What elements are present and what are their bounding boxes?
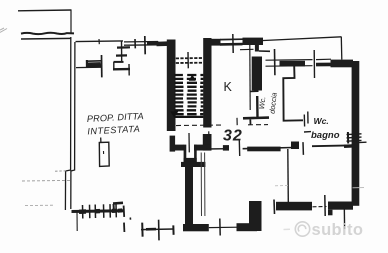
hinge tick right of corner	[273, 200, 276, 215]
top wall thick segment to stairwell	[157, 41, 171, 46]
svg-text:bagno: bagno	[311, 130, 340, 141]
svg-text:Wc.: Wc.	[314, 116, 329, 126]
top-right balcony outline vertical	[340, 37, 343, 60]
svg-text:K: K	[224, 80, 233, 94]
wall end cluster marks	[113, 203, 131, 232]
elevator right stub	[203, 134, 212, 151]
bottom-left window wall	[72, 204, 124, 231]
bottom door line	[209, 226, 239, 228]
elevator left bar	[174, 145, 184, 151]
pillar top tick	[100, 138, 102, 143]
balcony top-left upper edge line	[18, 9, 72, 12]
window right of jamb	[316, 59, 331, 64]
balcony top-left right vertical	[70, 10, 72, 33]
doccia wall foot tick	[250, 90, 259, 92]
bottom wall far right segment	[328, 202, 353, 210]
right exterior wall	[352, 61, 360, 206]
wc arrow tick	[307, 112, 309, 124]
doccia left wall thick	[252, 57, 262, 91]
landing center tick	[187, 52, 189, 68]
door tick on top wall	[98, 39, 100, 44]
stub below bottom wall	[328, 210, 333, 216]
doccia door stub	[249, 120, 251, 125]
thin drop below right wall	[343, 206, 345, 229]
pillar rectangle below INTESTATA	[99, 142, 109, 166]
bottom wall right segment	[276, 202, 312, 211]
dashed jog tick	[55, 170, 67, 172]
doccia bottom wall line	[243, 116, 269, 119]
stair treads	[174, 75, 203, 117]
dashed line kitchen boundary left	[168, 124, 224, 127]
dashed line kitchen boundary right	[248, 124, 268, 126]
elevator right bar	[194, 145, 212, 151]
stair down arrow	[170, 111, 178, 117]
svg-text:doccia: doccia	[268, 92, 279, 114]
right wall window hatches	[347, 132, 367, 144]
jamb line	[313, 50, 315, 78]
bottom wall left segment	[183, 224, 209, 231]
stairwell right wall	[203, 38, 211, 128]
bottom wall mid segment	[237, 223, 258, 231]
stair up arrow	[189, 74, 196, 81]
stairwell left wall	[167, 40, 176, 132]
stair landing window rows	[176, 58, 203, 63]
balcony lower edge line	[21, 37, 71, 40]
bagno bottom wall line	[312, 144, 355, 147]
pillar inner dot	[103, 151, 105, 154]
top-right balcony outline horizontal	[261, 37, 342, 41]
top wall right piece	[243, 38, 264, 45]
svg-text:PROP. DITTA: PROP. DITTA	[87, 111, 144, 124]
bagno bottom wall thick end	[344, 144, 355, 148]
elevator cup right wall	[194, 145, 197, 162]
kitchen window top line	[220, 38, 243, 40]
dark fill of window bar	[147, 41, 159, 44]
bedroom top wall thick bar	[247, 147, 280, 152]
faint mark at left edge	[0, 28, 7, 33]
elevator cup left wall	[184, 145, 187, 162]
terrace step wall cluster	[113, 41, 130, 76]
window symbol left (balcony door)	[76, 55, 102, 77]
middle wall glazing doccia	[266, 49, 313, 75]
watermark subito	[284, 221, 364, 239]
svg-text:Wc.: Wc.	[257, 96, 267, 110]
elevator left stub	[170, 136, 176, 152]
balcony wavy parapet line	[21, 33, 74, 34]
party wall stem	[185, 167, 193, 225]
stub notch tick	[208, 131, 210, 135]
corridor double line inner	[204, 153, 206, 217]
svg-text:INTESTATA: INTESTATA	[87, 124, 140, 137]
faint line above bottom wall left	[275, 184, 290, 186]
doccia thin vertical line	[249, 45, 251, 110]
top wall window (double glazing lines)	[124, 36, 159, 54]
elevator cup bottom	[184, 158, 197, 162]
faint dashed offset line lower	[25, 204, 53, 206]
faint dashed offset line upper	[22, 179, 70, 182]
lintel tick below cap	[240, 48, 254, 50]
kitchen window tick	[232, 34, 234, 53]
bedroom top wall thin line right	[243, 148, 293, 149]
door hinge line below 32	[238, 140, 240, 156]
step corner block	[249, 201, 262, 231]
elevator base bar	[181, 162, 205, 167]
left facade vertical line A	[65, 37, 70, 210]
elevator center tick	[188, 133, 190, 152]
bottom door tick	[219, 219, 221, 236]
doccia right wall L	[283, 66, 303, 121]
faint line above bottom wall right	[353, 187, 365, 189]
middle wall thick segment to right wall	[331, 60, 354, 68]
lower window symbol	[141, 220, 174, 241]
wc tick	[303, 115, 305, 127]
bottom door dashes	[313, 206, 327, 208]
thin line right of neck	[259, 50, 270, 52]
top wall right of stairwell left piece	[211, 39, 221, 46]
doccia door jamb vertical	[256, 96, 259, 118]
bagno leading dash	[304, 131, 311, 133]
wall neck below end	[255, 45, 259, 52]
corridor double line outer	[200, 153, 202, 217]
door hinge line above 32	[236, 118, 238, 125]
bedroom top wall thin line left	[206, 148, 229, 150]
kitchen window bottom line	[220, 43, 243, 46]
svg-text:32: 32	[223, 128, 243, 145]
text PROP. DITTA	[87, 80, 340, 145]
top wall thin segment	[76, 40, 124, 43]
door tick	[324, 195, 326, 216]
svg-text:subito: subito	[312, 221, 364, 239]
left facade vertical line B	[71, 42, 75, 209]
square block	[291, 142, 299, 150]
tick right of square	[302, 142, 304, 155]
bedroom top wall dark tick	[223, 145, 229, 151]
partition vertical	[287, 149, 290, 203]
